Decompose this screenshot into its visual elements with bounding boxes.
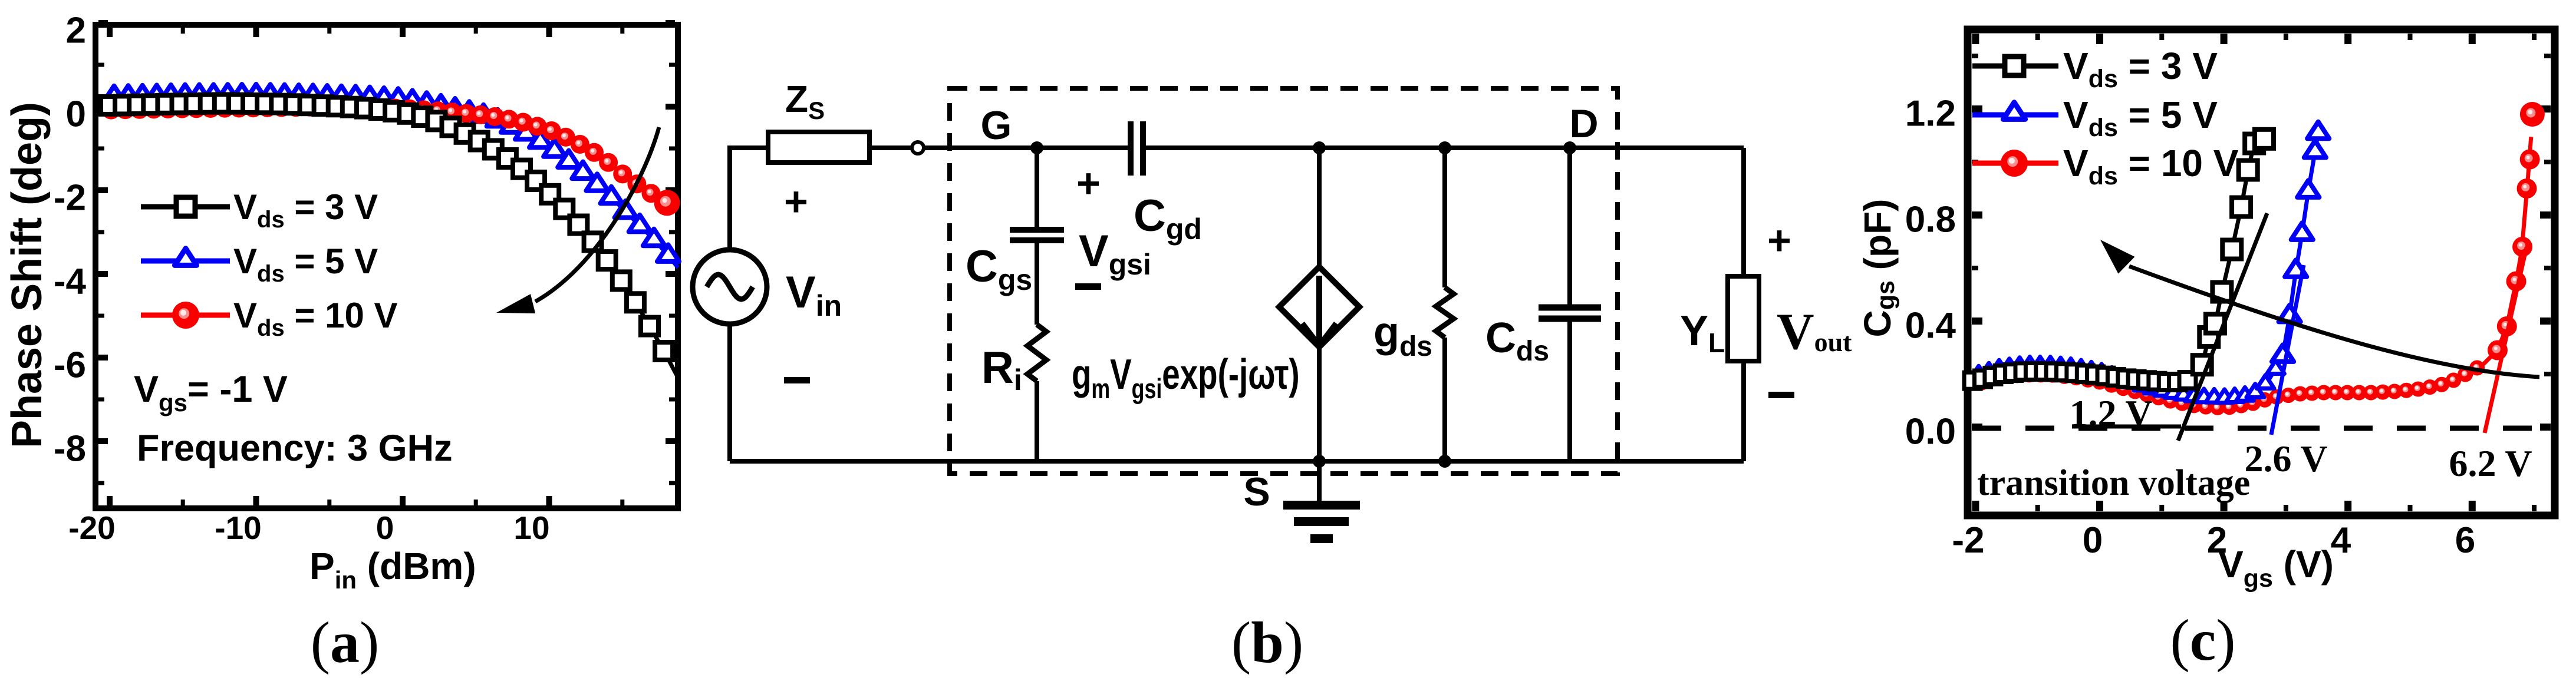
wire CCS bottom [1317,347,1322,461]
svg-text:(b): (b) [1231,610,1303,675]
svg-text:+: + [784,178,808,224]
node CCS bottom junction [1313,455,1326,468]
panel c transition line black [2072,213,2267,441]
svg-text:0.0: 0.0 [1905,412,1956,452]
svg-text:YL: YL [1680,307,1725,358]
svg-text:Vds = 3 V: Vds = 3 V [233,187,378,233]
svg-text:Ri: Ri [981,343,1022,396]
svg-text:-6: -6 [54,345,86,386]
resistor ZS box [768,132,869,163]
panel c curve Vds=10V red circles [1974,102,2545,415]
capacitor Cds branch wires [1567,148,1572,461]
current source arrow [1302,276,1336,346]
wire Cgs branch upper [1035,148,1039,227]
label minus Vgsi [1075,283,1101,290]
node G junction [1030,141,1043,154]
svg-text:Vout: Vout [1777,303,1852,361]
capacitor Cgs [1010,230,1064,240]
svg-text:Vgs (V): Vgs (V) [2218,543,2334,593]
panel a: phase shift chart frame [95,25,678,508]
wire Cgs to Ri [1035,240,1039,325]
panel c dashed zero line [1972,426,2550,431]
svg-text:6: 6 [2455,520,2475,561]
panel c y tick labels [1905,94,1956,452]
panel a curve Vds=10V red circles [102,98,680,216]
svg-text:Vds = 5 V: Vds = 5 V [233,242,378,287]
svg-text:Vds = 3 V: Vds = 3 V [2063,45,2218,93]
svg-text:ZS: ZS [785,78,825,124]
svg-text:Vin: Vin [786,267,842,322]
svg-text:Cgd: Cgd [1134,191,1202,246]
svg-text:4: 4 [2331,520,2351,561]
panel a curve Vds=5V blue triangles [103,84,679,268]
svg-text:D: D [1569,101,1598,146]
svg-text:Cgs: Cgs [966,242,1032,296]
panel a legend [141,187,398,341]
wire terminal to G [924,145,1037,150]
svg-text:2: 2 [66,11,86,51]
node open terminal [912,142,924,154]
svg-text:-8: -8 [54,429,86,469]
wire YL branch [1741,148,1746,461]
svg-text:-2: -2 [54,178,86,219]
wire bottom rail [730,459,1744,464]
svg-text:-2: -2 [1952,520,1984,561]
svg-text:0.4: 0.4 [1905,306,1956,346]
svg-text:Phase Shift (deg): Phase Shift (deg) [4,102,51,448]
svg-text:gds: gds [1373,309,1432,362]
svg-text:-20: -20 [68,510,116,546]
node D junction [1563,141,1576,154]
svg-text:0: 0 [376,510,394,546]
panel a y tick labels [54,11,87,469]
svg-text:1.2: 1.2 [1905,94,1956,134]
node CCS top junction [1313,141,1326,154]
current source diamond [1279,267,1359,347]
resistor gds zigzag [1436,287,1454,338]
panel c axis ticks [1972,34,2551,511]
panel c arrow [2129,266,2539,377]
panel c transition line blue [2271,265,2304,435]
svg-text:Cgs (pF): Cgs (pF) [1856,199,1900,338]
svg-text:2.6 V: 2.6 V [2244,438,2327,479]
resistor gds branch wires [1442,148,1447,461]
wire top rail Cgd to D [1143,145,1744,150]
svg-text:S: S [1243,469,1270,514]
panel a curve Vds=3V black squares [101,94,678,378]
panel c transition line red [2485,247,2526,433]
svg-text:6.2 V: 6.2 V [2449,442,2532,484]
panel a x tick labels [68,510,549,546]
label minus Vout [1768,392,1794,398]
svg-text:Vds = 10 V: Vds = 10 V [2063,142,2239,190]
capacitor Cgd [1131,121,1143,176]
dashed box intrinsic device [950,88,1618,474]
panel a axis ticks [98,23,675,505]
svg-text:G: G [981,103,1012,148]
ground [1317,461,1322,505]
svg-text:Pin (dBm): Pin (dBm) [309,545,476,594]
wire Ri to bottom rail [1035,381,1039,461]
svg-text:Frequency: 3 GHz: Frequency: 3 GHz [137,428,453,469]
capacitor Cds plates [1539,307,1601,319]
svg-text:-10: -10 [215,510,262,546]
svg-text:(a): (a) [311,610,380,675]
panel c legend [1972,45,2239,190]
panel c: Cgs chart frame [1968,29,2555,515]
svg-text:Vds = 10 V: Vds = 10 V [233,296,398,341]
svg-text:gmVgsiexp(-jωτ): gmVgsiexp(-jωτ) [1072,350,1300,404]
svg-text:Cds: Cds [1485,315,1549,367]
node gds bottom junction [1438,455,1451,468]
svg-text:-4: -4 [54,262,87,302]
svg-text:0: 0 [66,94,86,135]
wire top rail G to Cgd [1037,145,1131,150]
load YL box [1728,276,1759,361]
svg-text:0.8: 0.8 [1905,200,1956,240]
wire input loop left [730,148,911,250]
svg-text:Vgs= -1 V: Vgs= -1 V [134,369,288,416]
resistor Ri zigzag [1027,325,1046,381]
svg-text:+: + [1767,217,1791,263]
svg-text:0: 0 [2083,520,2103,561]
node gds top junction [1438,141,1451,154]
svg-text:(c): (c) [2170,607,2235,673]
wire CCS top [1317,148,1322,267]
wire source bottom [727,324,732,461]
panel c curve Vds=3V black squares [1964,130,2274,391]
svg-text:+: + [1076,160,1101,206]
svg-text:Vds = 5 V: Vds = 5 V [2063,94,2218,142]
label minus Vin [784,377,810,383]
svg-text:10: 10 [513,510,549,546]
source Vin AC circle [693,250,767,324]
svg-text:1.2 V: 1.2 V [2069,392,2152,434]
panel a arrow [535,127,659,302]
svg-text:transition voltage: transition voltage [1977,463,2250,503]
panel c curve Vds=5V blue triangles [1970,122,2330,403]
panel c x tick labels [1952,520,2475,561]
